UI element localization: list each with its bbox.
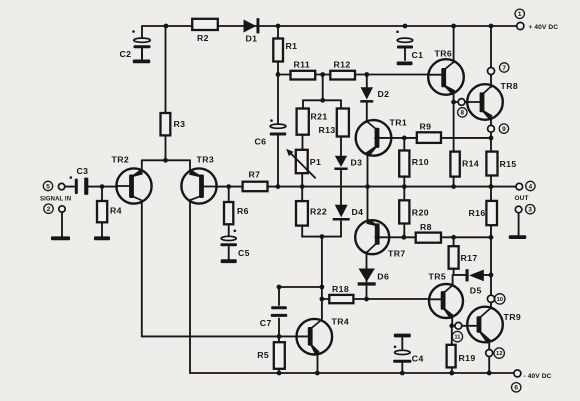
svg-text:TR5: TR5 xyxy=(429,272,447,282)
svg-text:D5: D5 xyxy=(470,286,482,296)
svg-text:R19: R19 xyxy=(459,353,476,363)
svg-text:D1: D1 xyxy=(246,34,258,44)
svg-text:10: 10 xyxy=(497,297,503,303)
svg-text:TR8: TR8 xyxy=(501,81,519,91)
svg-text:R18: R18 xyxy=(332,284,349,294)
svg-text:R5: R5 xyxy=(257,350,269,360)
svg-text:R22: R22 xyxy=(310,207,327,217)
svg-text:2: 2 xyxy=(47,206,51,213)
svg-text:R15: R15 xyxy=(500,159,517,169)
svg-text:5: 5 xyxy=(46,183,50,190)
svg-text:R9: R9 xyxy=(420,122,432,132)
svg-text:R3: R3 xyxy=(174,119,186,129)
svg-text:C2: C2 xyxy=(120,49,132,59)
svg-text:C3: C3 xyxy=(77,166,89,176)
svg-text:D6: D6 xyxy=(377,272,389,282)
svg-text:- 40V DC: - 40V DC xyxy=(524,373,552,380)
svg-text:TR6: TR6 xyxy=(435,49,453,59)
svg-text:R21: R21 xyxy=(311,112,328,122)
svg-text:C6: C6 xyxy=(255,137,267,147)
svg-text:R11: R11 xyxy=(294,60,311,70)
svg-text:TR2: TR2 xyxy=(112,155,130,165)
svg-text:R13: R13 xyxy=(319,125,336,135)
svg-text:R1: R1 xyxy=(286,41,298,51)
svg-text:11: 11 xyxy=(454,335,461,341)
svg-text:R8: R8 xyxy=(420,222,432,232)
svg-text:R10: R10 xyxy=(412,157,429,167)
svg-text:C4: C4 xyxy=(412,354,424,364)
svg-text:R6: R6 xyxy=(237,206,249,216)
svg-text:R4: R4 xyxy=(110,206,122,216)
svg-text:8: 8 xyxy=(461,110,465,117)
svg-text:R17: R17 xyxy=(461,253,478,263)
svg-text:C7: C7 xyxy=(260,318,272,328)
svg-text:SIGNAL IN: SIGNAL IN xyxy=(40,197,71,203)
svg-text:OUT: OUT xyxy=(515,195,529,202)
svg-text:C1: C1 xyxy=(412,50,424,60)
svg-text:P1: P1 xyxy=(310,157,321,167)
svg-text:D2: D2 xyxy=(378,89,390,99)
svg-text:R14: R14 xyxy=(462,159,479,169)
svg-text:9: 9 xyxy=(502,126,506,133)
svg-text:R20: R20 xyxy=(412,208,429,218)
svg-text:TR3: TR3 xyxy=(197,155,215,165)
svg-text:D4: D4 xyxy=(352,207,364,217)
svg-text:R12: R12 xyxy=(334,60,351,70)
svg-text:3: 3 xyxy=(528,207,532,214)
svg-text:R7: R7 xyxy=(249,170,261,180)
svg-text:4: 4 xyxy=(529,183,533,190)
svg-text:TR1: TR1 xyxy=(390,118,408,128)
svg-text:C5: C5 xyxy=(238,248,250,258)
svg-text:6: 6 xyxy=(514,385,518,392)
svg-text:R16: R16 xyxy=(469,208,486,218)
svg-text:D3: D3 xyxy=(351,158,363,168)
svg-text:TR7: TR7 xyxy=(388,249,406,259)
svg-text:7: 7 xyxy=(502,65,506,72)
svg-text:12: 12 xyxy=(496,351,502,357)
svg-text:TR9: TR9 xyxy=(504,312,522,322)
svg-text:+ 40V DC: + 40V DC xyxy=(529,24,559,31)
svg-text:TR4: TR4 xyxy=(332,317,350,327)
svg-text:1: 1 xyxy=(518,11,522,18)
svg-text:R2: R2 xyxy=(197,33,209,43)
